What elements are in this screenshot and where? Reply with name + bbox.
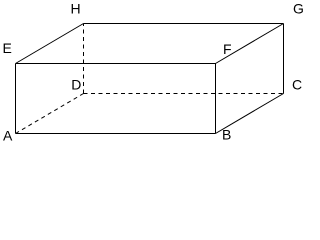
svg-text:G: G bbox=[293, 1, 304, 17]
svg-text:A: A bbox=[3, 128, 13, 144]
svg-text:F: F bbox=[223, 41, 232, 57]
svg-text:C: C bbox=[292, 77, 302, 93]
svg-text:H: H bbox=[71, 1, 81, 17]
svg-text:B: B bbox=[222, 127, 231, 143]
svg-text:E: E bbox=[3, 40, 12, 56]
svg-text:D: D bbox=[71, 77, 81, 93]
